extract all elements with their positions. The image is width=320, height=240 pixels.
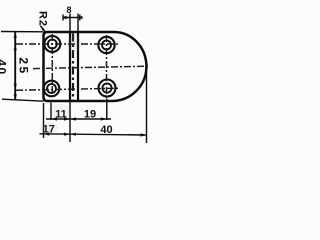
svg-text:40: 40 bbox=[0, 59, 9, 75]
svg-text:40: 40 bbox=[100, 124, 112, 136]
svg-text:8: 8 bbox=[66, 5, 71, 15]
svg-text:19: 19 bbox=[84, 109, 96, 121]
svg-text:R2: R2 bbox=[37, 11, 49, 27]
svg-text:25: 25 bbox=[17, 57, 31, 75]
